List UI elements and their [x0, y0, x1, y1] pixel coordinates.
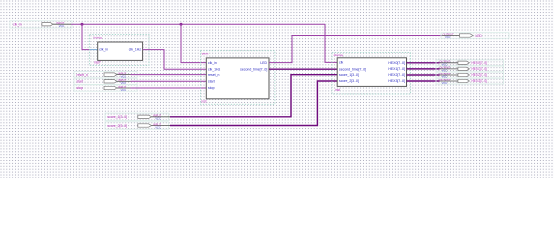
svg-text:score_2[3..0]: score_2[3..0]	[107, 124, 127, 128]
block pwm U2 (main)	[201, 51, 275, 105]
svg-text:inst: inst	[335, 88, 340, 92]
svg-text:HEX3[7..0]: HEX3[7..0]	[472, 79, 488, 83]
svg-text:VCC: VCC	[155, 117, 161, 121]
input pin score_2[3..0]	[105, 122, 170, 130]
svg-text:score_1[3..0]: score_1[3..0]	[107, 115, 127, 119]
svg-text:HEX0[7..0]: HEX0[7..0]	[388, 61, 405, 65]
svg-text:second_time[7..0]: second_time[7..0]	[240, 67, 267, 71]
svg-text:VCC: VCC	[121, 88, 127, 92]
svg-text:HEX1[7..0]: HEX1[7..0]	[472, 67, 488, 71]
svg-text:HEX1[7..0]: HEX1[7..0]	[388, 67, 405, 71]
wire reset_n to main block	[131, 74, 207, 76]
bus HEX1 to output pin	[407, 68, 440, 70]
svg-text:clk_in: clk_in	[99, 48, 108, 52]
svg-text:inst7: inst7	[94, 61, 101, 65]
bus second_time to display	[269, 68, 337, 70]
svg-text:pwm: pwm	[202, 52, 209, 56]
bus score_2 to display	[170, 81, 337, 126]
svg-text:HEX0[7..0]: HEX0[7..0]	[472, 61, 488, 65]
svg-text:HEX2[7..0]: HEX2[7..0]	[388, 73, 405, 77]
svg-text:clk_1Hz: clk_1Hz	[129, 48, 142, 52]
block display U3	[332, 53, 411, 94]
input pin stop	[74, 85, 137, 92]
svg-text:reset_n: reset_n	[77, 73, 89, 77]
svg-text:start: start	[77, 80, 84, 84]
block timing U1	[90, 35, 150, 66]
input pin reset_n	[74, 71, 137, 78]
svg-text:VCC: VCC	[155, 125, 161, 129]
input pin start	[74, 78, 137, 85]
svg-text:inst: inst	[202, 100, 207, 104]
svg-text:clk: clk	[339, 61, 343, 65]
wire start to main block	[131, 80, 207, 82]
svg-text:HEX3[7..0]: HEX3[7..0]	[388, 79, 405, 83]
output pin LED	[441, 32, 509, 39]
wire down to main block clk_in	[181, 24, 206, 62]
wire LED to output pin	[269, 36, 442, 63]
wire clk_in main horizontal net	[71, 23, 325, 25]
output pin HEX1[7..0]	[436, 66, 504, 73]
svg-text:reset_n: reset_n	[208, 73, 220, 77]
svg-text:clk_1Hz: clk_1Hz	[208, 67, 221, 71]
bus HEX0 to output pin	[407, 62, 440, 64]
svg-text:clk_in: clk_in	[208, 61, 217, 65]
bus HEX2 to output pin	[407, 74, 440, 76]
svg-text:second_time[7..0]: second_time[7..0]	[339, 67, 366, 71]
node junction at x=181	[180, 23, 183, 26]
wire timing clk_1Hz to main clk_1Hz	[143, 50, 207, 70]
wire down to timing clk_in	[82, 24, 98, 49]
svg-text:score_1[3..0]: score_1[3..0]	[339, 73, 359, 77]
svg-text:HEX2[7..0]: HEX2[7..0]	[472, 73, 488, 77]
output pin HEX0[7..0]	[436, 60, 504, 67]
input pin clk_in	[10, 21, 72, 28]
svg-text:timing: timing	[94, 36, 103, 40]
bus HEX3 to output pin	[407, 80, 440, 82]
wire down to display clk	[325, 24, 337, 62]
wire stop to main block	[131, 87, 207, 89]
svg-text:LED: LED	[260, 61, 267, 65]
bus score_1 to display	[170, 75, 337, 117]
input pin score_1[3..0]	[105, 113, 170, 121]
svg-text:score_2[3..0]: score_2[3..0]	[339, 79, 359, 83]
svg-text:LED: LED	[476, 34, 483, 38]
svg-text:VCC: VCC	[59, 24, 65, 28]
svg-text:display: display	[334, 53, 344, 57]
svg-text:start: start	[208, 80, 215, 84]
node junction at x=82	[81, 23, 84, 26]
output pin HEX3[7..0]	[436, 78, 504, 85]
output pin HEX2[7..0]	[436, 72, 504, 79]
svg-text:stop: stop	[77, 86, 84, 90]
svg-text:clk_in: clk_in	[13, 22, 22, 26]
svg-text:stop: stop	[208, 86, 215, 90]
